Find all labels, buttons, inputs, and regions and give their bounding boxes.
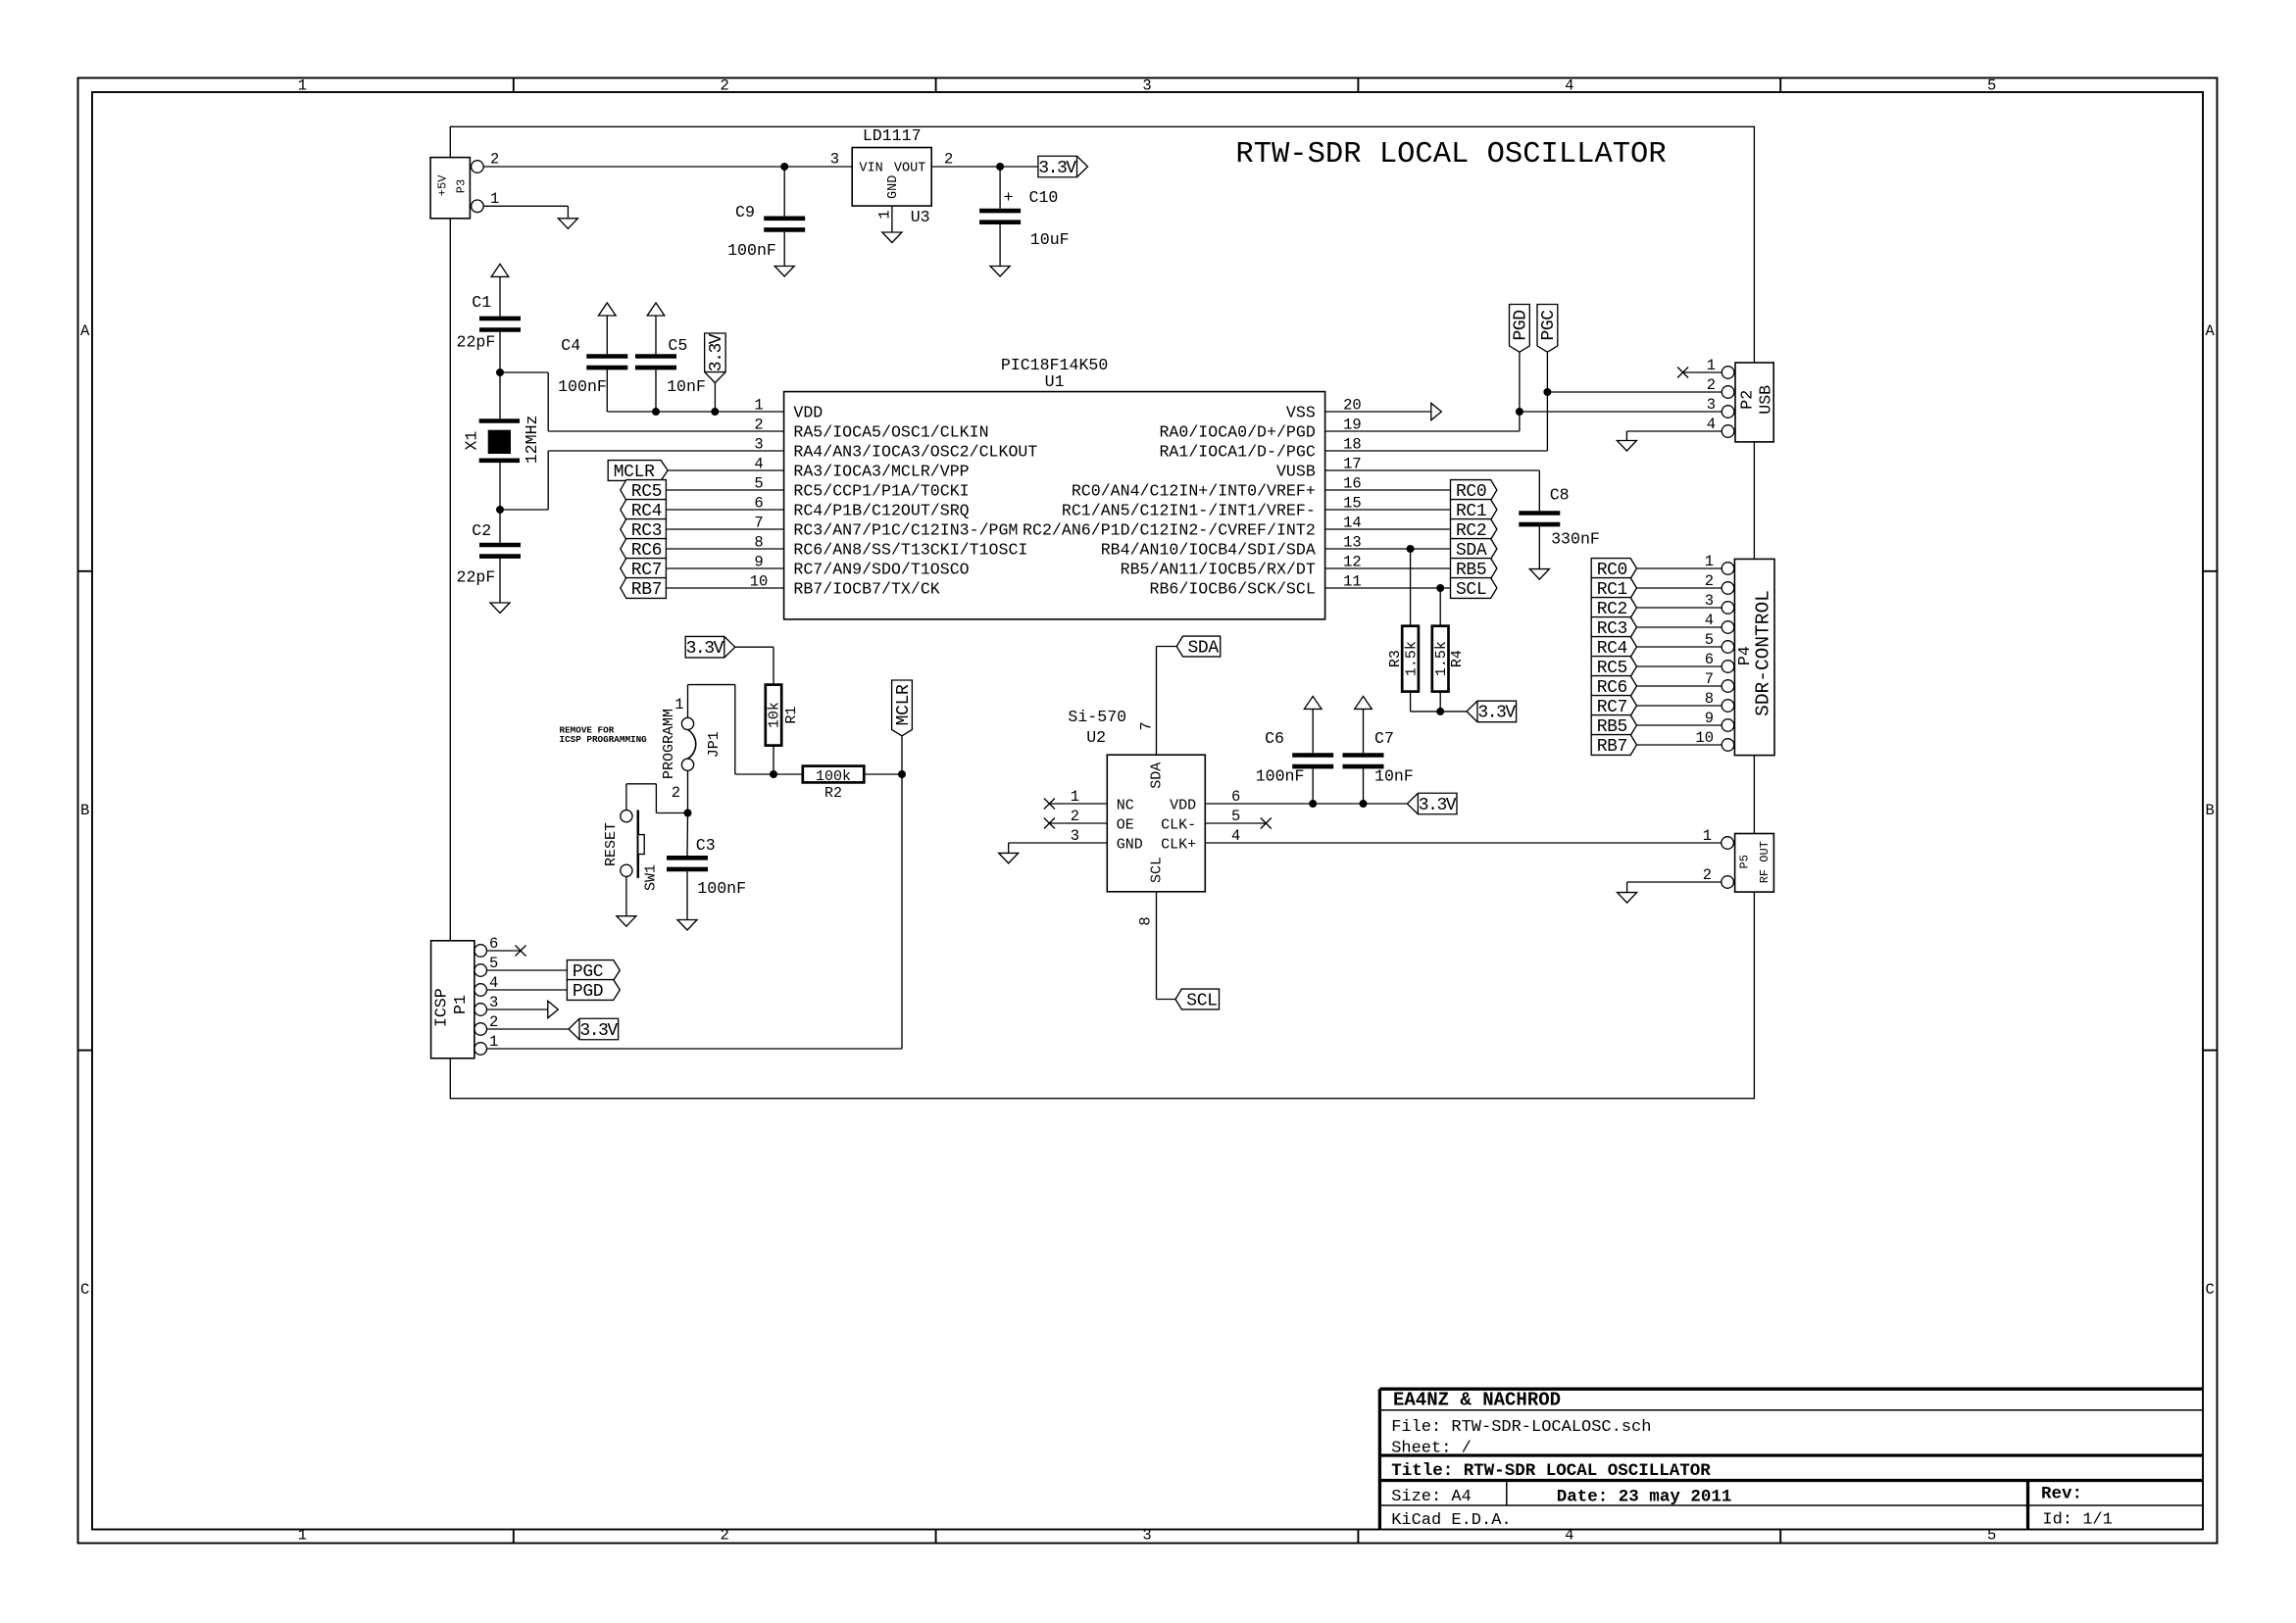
svg-text:1: 1 xyxy=(489,1033,498,1051)
svg-text:3.3V: 3.3V xyxy=(707,333,726,371)
svg-text:RF OUT: RF OUT xyxy=(1758,841,1772,883)
svg-text:C: C xyxy=(2206,1281,2215,1299)
svg-text:OE: OE xyxy=(1117,816,1134,833)
svg-text:2: 2 xyxy=(1707,376,1716,394)
svg-text:A: A xyxy=(80,322,90,340)
svg-text:R1: R1 xyxy=(783,707,800,724)
svg-text:RC6: RC6 xyxy=(631,541,663,561)
svg-text:RC6/AN8/SS/T13CKI/T1OSCI: RC6/AN8/SS/T13CKI/T1OSCI xyxy=(793,540,1027,559)
svg-text:3.3V: 3.3V xyxy=(1419,796,1457,815)
svg-text:6: 6 xyxy=(1705,651,1714,668)
svg-text:RC5: RC5 xyxy=(631,482,663,502)
svg-text:RC0/AN4/C12IN+/INT0/VREF+: RC0/AN4/C12IN+/INT0/VREF+ xyxy=(1072,481,1316,500)
svg-text:3: 3 xyxy=(1142,1527,1151,1545)
svg-text:10: 10 xyxy=(1695,729,1714,747)
svg-text:KiCad E.D.A.: KiCad E.D.A. xyxy=(1391,1511,1511,1530)
svg-text:RC4: RC4 xyxy=(1597,639,1628,659)
svg-text:SW1: SW1 xyxy=(643,864,660,891)
svg-text:RB4/AN10/IOCB4/SDI/SDA: RB4/AN10/IOCB4/SDI/SDA xyxy=(1101,540,1316,559)
svg-text:RC3: RC3 xyxy=(631,521,663,541)
svg-text:PGD: PGD xyxy=(573,982,604,1002)
svg-text:2: 2 xyxy=(721,77,729,95)
svg-text:3.3V: 3.3V xyxy=(1477,704,1516,723)
svg-text:SDA: SDA xyxy=(1188,638,1220,658)
svg-text:RB7/IOCB7/TX/CK: RB7/IOCB7/TX/CK xyxy=(793,579,939,598)
svg-text:VOUT: VOUT xyxy=(894,162,925,176)
svg-text:C2: C2 xyxy=(472,521,491,540)
svg-text:MCLR: MCLR xyxy=(614,463,655,482)
svg-text:22pF: 22pF xyxy=(457,333,496,352)
svg-text:22pF: 22pF xyxy=(457,568,496,587)
svg-text:5: 5 xyxy=(1987,1527,1996,1545)
svg-text:6: 6 xyxy=(489,935,498,953)
svg-text:SDR-CONTROL: SDR-CONTROL xyxy=(1752,590,1773,716)
svg-text:RTW-SDR LOCAL OSCILLATOR: RTW-SDR LOCAL OSCILLATOR xyxy=(1235,138,1666,172)
svg-text:3: 3 xyxy=(1707,396,1716,414)
svg-text:C9: C9 xyxy=(735,203,755,221)
svg-text:8: 8 xyxy=(1136,916,1154,925)
svg-text:RC5: RC5 xyxy=(1597,659,1628,678)
svg-text:5: 5 xyxy=(1231,808,1240,825)
svg-text:10nF: 10nF xyxy=(667,377,706,396)
svg-text:RC2: RC2 xyxy=(1456,521,1487,541)
svg-text:3: 3 xyxy=(1705,592,1714,610)
svg-text:B: B xyxy=(2206,802,2215,819)
svg-text:RB5/AN11/IOCB5/RX/DT: RB5/AN11/IOCB5/RX/DT xyxy=(1121,560,1316,578)
svg-text:PGC: PGC xyxy=(1539,310,1559,341)
svg-text:RB5: RB5 xyxy=(1456,561,1487,580)
svg-text:12MHz: 12MHz xyxy=(523,416,541,465)
svg-text:2: 2 xyxy=(754,417,763,434)
svg-text:C: C xyxy=(80,1281,89,1299)
svg-text:File: RTW-SDR-LOCALOSC.sch: File: RTW-SDR-LOCALOSC.sch xyxy=(1391,1418,1651,1437)
svg-text:RB7: RB7 xyxy=(631,580,663,600)
svg-text:PGD: PGD xyxy=(1512,310,1531,341)
svg-text:RB5: RB5 xyxy=(1597,717,1628,737)
svg-text:SDA: SDA xyxy=(1149,762,1166,789)
svg-text:P1: P1 xyxy=(451,995,470,1014)
svg-text:RC4/P1B/C12OUT/SRQ: RC4/P1B/C12OUT/SRQ xyxy=(793,501,969,519)
svg-text:SCL: SCL xyxy=(1186,991,1218,1010)
svg-text:R2: R2 xyxy=(824,785,842,802)
svg-text:100nF: 100nF xyxy=(1256,767,1305,786)
svg-text:RB6/IOCB6/SCK/SCL: RB6/IOCB6/SCK/SCL xyxy=(1150,579,1316,598)
svg-text:RC0: RC0 xyxy=(1597,561,1628,580)
svg-text:RC3/AN7/P1C/C12IN3-/PGM: RC3/AN7/P1C/C12IN3-/PGM xyxy=(793,520,1018,539)
svg-text:Title: RTW-SDR LOCAL OSCILLATO: Title: RTW-SDR LOCAL OSCILLATOR xyxy=(1391,1461,1711,1481)
svg-text:Si-570: Si-570 xyxy=(1068,708,1126,726)
svg-text:Rev:: Rev: xyxy=(2041,1485,2082,1504)
svg-text:4: 4 xyxy=(489,974,498,992)
svg-text:2: 2 xyxy=(1705,572,1714,590)
svg-text:10k: 10k xyxy=(767,702,783,728)
svg-text:SCL: SCL xyxy=(1456,580,1487,600)
svg-text:PROGRAMM: PROGRAMM xyxy=(661,709,677,779)
svg-text:2: 2 xyxy=(490,151,499,169)
svg-text:P2: P2 xyxy=(1737,390,1756,410)
svg-text:C8: C8 xyxy=(1550,486,1570,505)
svg-text:3.3V: 3.3V xyxy=(686,639,724,659)
svg-text:VUSB: VUSB xyxy=(1276,462,1316,480)
svg-text:GND: GND xyxy=(886,175,901,199)
svg-text:ICSP: ICSP xyxy=(432,988,451,1027)
svg-text:5: 5 xyxy=(1705,631,1714,649)
svg-text:3.3V: 3.3V xyxy=(1038,159,1076,178)
svg-text:C6: C6 xyxy=(1265,729,1284,748)
svg-text:A: A xyxy=(2206,322,2216,340)
svg-text:USB: USB xyxy=(1757,385,1775,415)
svg-text:1: 1 xyxy=(754,397,763,415)
svg-text:ICSP PROGRAMMING: ICSP PROGRAMMING xyxy=(560,734,648,745)
svg-text:GND: GND xyxy=(1117,836,1143,853)
svg-text:330nF: 330nF xyxy=(1551,530,1600,549)
svg-text:10uF: 10uF xyxy=(1030,230,1070,249)
svg-text:3: 3 xyxy=(830,151,839,169)
svg-text:R3: R3 xyxy=(1387,650,1404,667)
svg-text:RC0: RC0 xyxy=(1456,482,1487,502)
svg-text:RC5/CCP1/P1A/T0CKI: RC5/CCP1/P1A/T0CKI xyxy=(793,481,969,500)
svg-text:3: 3 xyxy=(754,436,763,454)
svg-text:C10: C10 xyxy=(1029,188,1059,207)
svg-text:RC7: RC7 xyxy=(1597,698,1628,717)
svg-text:RB7: RB7 xyxy=(1597,737,1628,757)
svg-text:LD1117: LD1117 xyxy=(863,126,922,145)
svg-text:Sheet: /: Sheet: / xyxy=(1391,1440,1472,1458)
svg-text:8: 8 xyxy=(1705,690,1714,708)
svg-text:RC2: RC2 xyxy=(1597,600,1628,619)
svg-text:P4: P4 xyxy=(1735,646,1754,665)
svg-text:100k: 100k xyxy=(816,768,851,785)
svg-text:100nF: 100nF xyxy=(697,879,746,898)
svg-text:2: 2 xyxy=(721,1527,729,1545)
svg-text:7: 7 xyxy=(1705,670,1714,688)
svg-text:B: B xyxy=(80,802,89,819)
svg-text:4: 4 xyxy=(1565,77,1573,95)
svg-text:P5: P5 xyxy=(1738,855,1752,868)
svg-text:2: 2 xyxy=(1703,866,1712,884)
svg-text:C5: C5 xyxy=(668,336,687,355)
svg-text:1.5k: 1.5k xyxy=(1403,641,1420,676)
svg-text:+5V: +5V xyxy=(436,174,450,196)
svg-text:100nF: 100nF xyxy=(727,241,776,260)
svg-text:P3: P3 xyxy=(454,179,468,193)
svg-text:R4: R4 xyxy=(1449,650,1466,667)
svg-text:VIN: VIN xyxy=(859,162,882,176)
svg-text:CLK+: CLK+ xyxy=(1161,836,1196,853)
svg-text:C7: C7 xyxy=(1374,729,1394,748)
svg-text:5: 5 xyxy=(489,955,498,972)
svg-text:4: 4 xyxy=(1231,827,1240,845)
svg-text:RC7/AN9/SDO/T1OSCO: RC7/AN9/SDO/T1OSCO xyxy=(793,560,969,578)
svg-text:3: 3 xyxy=(1142,77,1151,95)
svg-text:VDD: VDD xyxy=(793,403,823,421)
svg-text:C1: C1 xyxy=(472,293,491,312)
svg-text:RC6: RC6 xyxy=(1597,678,1628,698)
svg-text:EA4NZ & NACHROD: EA4NZ & NACHROD xyxy=(1393,1390,1561,1411)
svg-text:1: 1 xyxy=(1705,553,1714,570)
svg-text:RC1/AN5/C12IN1-/INT1/VREF-: RC1/AN5/C12IN1-/INT1/VREF- xyxy=(1062,501,1316,519)
svg-text:RA1/IOCA1/D-/PGC: RA1/IOCA1/D-/PGC xyxy=(1159,442,1315,461)
svg-text:SCL: SCL xyxy=(1149,857,1166,883)
svg-text:U1: U1 xyxy=(1045,372,1065,391)
svg-text:RC1: RC1 xyxy=(1456,502,1487,521)
svg-text:4: 4 xyxy=(1707,416,1716,433)
svg-text:Date: 23 may 2011: Date: 23 may 2011 xyxy=(1557,1488,1732,1507)
svg-text:1: 1 xyxy=(1071,788,1079,806)
svg-text:4: 4 xyxy=(1705,612,1714,629)
svg-text:RC1: RC1 xyxy=(1597,580,1628,600)
svg-text:MCLR: MCLR xyxy=(894,684,914,725)
svg-text:JP1: JP1 xyxy=(706,731,723,758)
svg-text:1.5k: 1.5k xyxy=(1433,641,1450,676)
svg-text:VSS: VSS xyxy=(1286,403,1316,421)
svg-text:1: 1 xyxy=(298,77,307,95)
svg-text:2: 2 xyxy=(672,784,680,802)
svg-text:RA5/IOCA5/OSC1/CLKIN: RA5/IOCA5/OSC1/CLKIN xyxy=(793,422,988,441)
svg-text:1: 1 xyxy=(298,1527,307,1545)
svg-text:2: 2 xyxy=(489,1013,498,1031)
svg-text:Size: A4: Size: A4 xyxy=(1391,1488,1472,1506)
svg-text:6: 6 xyxy=(1231,788,1240,806)
svg-text:SDA: SDA xyxy=(1456,541,1487,561)
svg-text:3: 3 xyxy=(489,994,498,1011)
svg-text:2: 2 xyxy=(944,151,953,169)
svg-text:3: 3 xyxy=(1071,827,1079,845)
svg-text:U2: U2 xyxy=(1086,728,1106,747)
svg-text:X1: X1 xyxy=(462,431,480,451)
svg-text:VDD: VDD xyxy=(1170,797,1196,813)
svg-text:NC: NC xyxy=(1117,797,1134,813)
svg-text:+: + xyxy=(1003,189,1013,208)
svg-text:3.3V: 3.3V xyxy=(579,1021,618,1041)
svg-text:RC7: RC7 xyxy=(631,561,663,580)
svg-text:C4: C4 xyxy=(561,336,580,355)
svg-text:RESET: RESET xyxy=(603,822,620,866)
svg-text:5: 5 xyxy=(1987,77,1996,95)
svg-text:RC2/AN6/P1D/C12IN2-/CVREF/INT2: RC2/AN6/P1D/C12IN2-/CVREF/INT2 xyxy=(1023,520,1316,539)
svg-text:RA3/IOCA3/MCLR/VPP: RA3/IOCA3/MCLR/VPP xyxy=(793,462,969,480)
svg-text:U3: U3 xyxy=(911,208,930,226)
svg-text:RA0/IOCA0/D+/PGD: RA0/IOCA0/D+/PGD xyxy=(1159,422,1315,441)
svg-text:4: 4 xyxy=(1565,1527,1573,1545)
svg-text:1: 1 xyxy=(490,190,499,208)
svg-text:RC4: RC4 xyxy=(631,502,663,521)
svg-text:CLK-: CLK- xyxy=(1161,816,1196,833)
svg-text:100nF: 100nF xyxy=(558,377,607,396)
svg-text:10nF: 10nF xyxy=(1374,767,1414,786)
svg-text:7: 7 xyxy=(1137,721,1155,730)
svg-text:C3: C3 xyxy=(696,836,716,855)
svg-text:1: 1 xyxy=(876,210,894,219)
svg-text:RA4/AN3/IOCA3/OSC2/CLKOUT: RA4/AN3/IOCA3/OSC2/CLKOUT xyxy=(793,442,1037,461)
svg-text:Id: 1/1: Id: 1/1 xyxy=(2042,1511,2112,1530)
svg-text:PGC: PGC xyxy=(573,962,604,982)
svg-text:1: 1 xyxy=(1703,827,1712,845)
svg-text:1: 1 xyxy=(1707,357,1716,374)
svg-text:2: 2 xyxy=(1071,808,1079,825)
svg-text:9: 9 xyxy=(1705,710,1714,727)
svg-text:RC3: RC3 xyxy=(1597,619,1628,639)
